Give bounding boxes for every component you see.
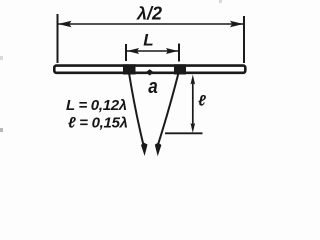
svg-text:ℓ: ℓ	[198, 93, 206, 110]
svg-text:L: L	[143, 30, 153, 49]
svg-text:L = 0,12λ: L = 0,12λ	[66, 97, 127, 114]
svg-text:λ/2: λ/2	[136, 4, 162, 24]
svg-text:a: a	[148, 76, 158, 98]
svg-text:ℓ = 0,15λ: ℓ = 0,15λ	[68, 115, 128, 132]
